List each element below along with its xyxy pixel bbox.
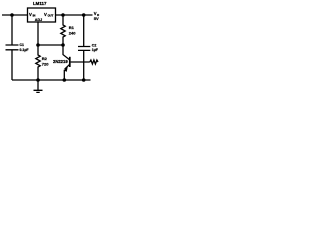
svg-text:R1: R1: [69, 25, 75, 30]
svg-text:V: V: [44, 12, 47, 17]
svg-text:IN: IN: [33, 14, 36, 18]
svg-text:1µF: 1µF: [92, 48, 99, 52]
svg-text:C2: C2: [92, 44, 97, 48]
svg-text:240: 240: [69, 30, 76, 35]
svg-text:LM117: LM117: [33, 1, 47, 6]
svg-text:C1: C1: [20, 43, 25, 47]
svg-text:V: V: [29, 12, 32, 17]
svg-text:0.1µF: 0.1µF: [20, 48, 30, 52]
svg-text:OUT: OUT: [48, 14, 54, 18]
svg-text:5V: 5V: [94, 16, 99, 21]
svg-text:2N2219: 2N2219: [53, 59, 68, 64]
svg-text:720: 720: [42, 61, 49, 66]
svg-text:ADJ: ADJ: [35, 18, 42, 22]
